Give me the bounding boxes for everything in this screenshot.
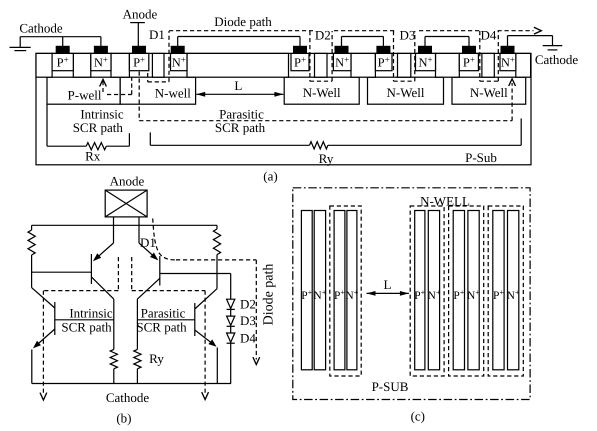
contact on P+3: [294, 46, 307, 53]
transistor Q4 NPN (parasitic): [194, 303, 196, 336]
ground symbol (right cathode): [543, 45, 563, 47]
D2 N+ finger: [428, 211, 439, 370]
svg-text:D3: D3: [240, 313, 256, 328]
contact on P+1: [56, 46, 69, 53]
svg-text:D3: D3: [400, 28, 416, 43]
P-SUB outer boundary (dash-dot): [293, 188, 530, 400]
dashed box around D2 junction: [309, 31, 311, 81]
wire cathode rail to contacts: [20, 36, 101, 38]
wire metal strap N+2 to P+3: [177, 37, 179, 47]
field spacer at left substrate edge: [36, 53, 52, 77]
svg-text:SCR path: SCR path: [215, 120, 266, 135]
dashed box around D4 junction: [479, 31, 481, 81]
svg-text:Rx: Rx: [85, 149, 101, 164]
wire Q3 emitter to cathode rail: [31, 350, 33, 384]
svg-text:D1: D1: [149, 27, 165, 42]
wire anode to left emitter: [113, 217, 115, 243]
field spacer under D2: [315, 53, 328, 77]
anode terminal wire: [130, 22, 145, 24]
svg-text:D4: D4: [240, 331, 256, 346]
svg-text:Diode path: Diode path: [262, 264, 277, 326]
D3 N+ finger: [468, 211, 479, 370]
N-well boundary of D4 finger group (dashed): [488, 206, 523, 376]
svg-text:SCR path: SCR path: [61, 320, 112, 335]
contact on N+4: [419, 46, 432, 53]
D4 N+ finger: [508, 211, 519, 370]
wire Q3 base tap: [55, 319, 114, 321]
D4 P+ finger: [493, 211, 504, 370]
N-well boundary of D2 finger group (dashed): [410, 206, 444, 376]
wire Q4 emitter to cathode rail: [216, 348, 218, 384]
transistor Q2 PNP (parasitic): [159, 256, 161, 286]
wire left stub to Ry: [149, 132, 151, 145]
resistor left N-well R: [31, 225, 33, 230]
diode D2 symbol: [227, 299, 235, 308]
svg-text:Anode: Anode: [110, 174, 145, 189]
wire Q1 collector down-lead: [113, 299, 115, 349]
svg-text:Parasitic: Parasitic: [141, 306, 186, 321]
N+5 diffusion (D4 cathode): [500, 53, 516, 70]
dashed box around D3 junction: [393, 31, 395, 81]
contact on N+2: [171, 46, 184, 53]
resistor Rx vertical (b): [110, 349, 117, 368]
N+4 diffusion (D3 cathode): [416, 53, 436, 70]
contact on P+5: [463, 46, 476, 53]
svg-text:SCR path: SCR path: [136, 320, 187, 335]
svg-text:D2: D2: [315, 28, 331, 43]
N+2 diffusion (D1 cathode): [171, 53, 188, 70]
N-well boundary of D3 finger group (dashed): [449, 206, 484, 376]
resistor Ry: [310, 142, 328, 149]
wire from P-well to Rx: [46, 104, 48, 146]
N+1 cathode diffusion: [91, 53, 111, 70]
wire metal strap N+4 to P+5: [424, 37, 426, 47]
svg-text:N-well: N-well: [155, 86, 191, 101]
svg-text:L: L: [384, 277, 392, 292]
N-well 1 region box (SCR anode well): [120, 77, 196, 104]
P+1 cathode diffusion: [52, 53, 73, 70]
wire anode rail to well resistors: [32, 224, 217, 226]
cathode P+ finger: [301, 211, 312, 370]
dashed parasitic SCR path with up arrow: [138, 72, 140, 121]
section (a) substrate outline (P-Sub cross-section): [36, 53, 531, 164]
ground symbol (left cathode): [19, 37, 21, 48]
diode D4 symbol: [227, 333, 235, 342]
wire from Ry to P-sub contact region: [328, 144, 521, 146]
resistor Ry vertical (b): [134, 349, 141, 368]
transistor Q1 PNP (intrinsic): [90, 254, 92, 284]
wire diode chain top: [230, 274, 232, 300]
field spacer between N-Well3 and N-Well4: [436, 53, 460, 77]
svg-text:N-Well: N-Well: [303, 85, 341, 100]
L spacing dimension arrow (c): [367, 292, 409, 294]
svg-text:Cathode: Cathode: [106, 390, 150, 405]
svg-text:Cathode: Cathode: [19, 20, 63, 35]
anode pad symbol (crossed box): [105, 190, 147, 217]
wide field region between N-well1 and N-Well2 (spacing L): [187, 53, 289, 77]
N+3 diffusion (D2 cathode): [333, 53, 351, 70]
P+5 diffusion (D4 anode): [459, 53, 478, 70]
N-well boundary of anode finger group (dashed): [330, 206, 361, 376]
svg-text:N-Well: N-Well: [470, 85, 508, 100]
D3 P+ finger: [453, 211, 464, 370]
resistor Rx: [86, 143, 106, 150]
anode N+ finger: [347, 211, 357, 370]
N-Well 3 region box (diode D3 well): [368, 77, 444, 104]
wire metal strap N+3 to P+4: [341, 37, 343, 47]
wire from Rx to stub: [106, 145, 129, 147]
svg-text:N-WELL: N-WELL: [420, 194, 470, 209]
svg-text:Ry: Ry: [319, 151, 334, 166]
wire Q2 collector down-lead: [136, 299, 138, 349]
resistor right N-well R: [216, 225, 218, 229]
wire cathode rail (b): [32, 383, 231, 385]
dashed intrinsic SCR path loop (b): [117, 257, 119, 291]
wire Q1 base to left rail: [32, 271, 92, 273]
contact on N+5: [501, 46, 514, 53]
P+2 anode diffusion: [129, 53, 148, 70]
P-well region box: [47, 77, 120, 104]
N-Well 2 region box (diode D2 well): [284, 77, 359, 104]
svg-text:P-SUB: P-SUB: [372, 379, 409, 394]
wire Q4 base tap: [137, 319, 194, 321]
svg-text:D2: D2: [240, 296, 256, 311]
svg-text:(c): (c): [411, 409, 425, 424]
D2 P+ finger: [415, 211, 425, 370]
svg-text:D4: D4: [481, 28, 497, 43]
contact on P+2 (anode): [133, 46, 146, 53]
P+3 diffusion (D2 anode): [291, 53, 309, 70]
svg-text:SCR path: SCR path: [73, 120, 124, 135]
dashed intrinsic SCR path with up arrow: [100, 79, 107, 86]
svg-text:Intrinsic: Intrinsic: [69, 306, 113, 321]
diode D3 symbol: [227, 316, 235, 325]
wire N+5 to right cathode ground: [507, 36, 509, 47]
contact on P+4: [377, 46, 390, 53]
field spacer between P+1 and N+1: [73, 53, 91, 77]
dashed diode path top line: [169, 30, 313, 32]
dashed diode path curve (b): [153, 219, 178, 260]
N-Well 4 region box (diode D4 well): [452, 77, 526, 104]
dashed parasitic SCR path loop (b): [131, 257, 133, 291]
svg-text:Diode path: Diode path: [214, 14, 272, 29]
dashed diode path D1 loop: [147, 73, 149, 82]
field spacer under D4: [482, 53, 494, 77]
field spacer between N+1 and P+2: [111, 53, 129, 77]
contact on N+3: [335, 46, 348, 53]
field spacer under D3: [398, 53, 411, 77]
cathode N+ finger: [314, 211, 325, 370]
transistor Q3 NPN (intrinsic): [54, 302, 56, 335]
field spacer at right substrate edge: [516, 53, 531, 77]
svg-text:P-well: P-well: [68, 87, 102, 102]
svg-text:D1: D1: [140, 235, 156, 250]
svg-text:Ry: Ry: [149, 351, 164, 366]
wire Q2 base to diode chain: [160, 273, 231, 275]
anode P+ finger: [334, 211, 345, 370]
contact on N+1: [95, 46, 108, 53]
svg-text:N-Well: N-Well: [387, 85, 425, 100]
svg-text:(a): (a): [263, 169, 277, 184]
svg-text:Cathode: Cathode: [535, 52, 579, 67]
svg-text:L: L: [234, 78, 242, 93]
P+4 diffusion (D3 anode): [375, 53, 392, 70]
field spacer between N-Well2 and N-Well3: [351, 53, 375, 77]
L spacing dimension arrow (a): [196, 93, 283, 95]
wire anode to right emitter: [138, 217, 140, 243]
svg-text:(b): (b): [116, 411, 131, 426]
svg-text:P-Sub: P-Sub: [465, 150, 497, 165]
field spacer under D1: [152, 53, 164, 77]
svg-text:Anode: Anode: [123, 7, 158, 22]
